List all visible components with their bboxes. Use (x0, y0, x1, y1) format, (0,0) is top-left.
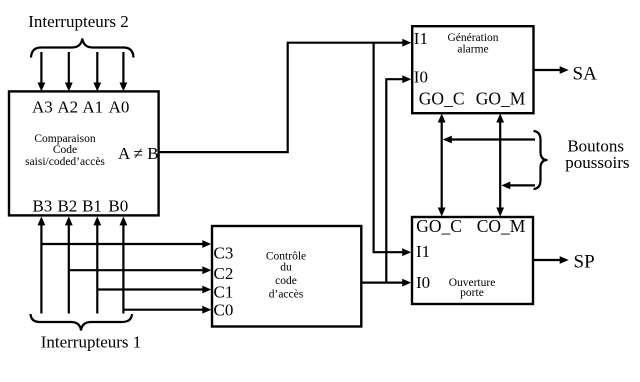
wire SP output (533, 259, 561, 261)
wire bouton to GO_M (510, 184, 536, 186)
svg-text:code: code (275, 275, 297, 287)
svg-text:A3: A3 (32, 98, 53, 117)
svg-text:B0: B0 (108, 197, 128, 216)
svg-text:saisi/coded’accès: saisi/coded’accès (25, 156, 105, 168)
svg-text:GO_C: GO_C (416, 216, 462, 236)
svg-text:GO_M: GO_M (476, 88, 526, 108)
svg-text:C2: C2 (214, 264, 234, 283)
block U2 Controle du code d'acces (212, 226, 361, 327)
svg-text:C1: C1 (214, 283, 234, 302)
block U1 Comparaison Code saisi/code d'acces (9, 91, 159, 215)
wire SA output (534, 69, 561, 71)
svg-text:Comparaison: Comparaison (34, 133, 96, 145)
wire C1 branch (97, 288, 203, 290)
svg-text:porte: porte (460, 287, 484, 299)
svg-text:Code: Code (53, 144, 77, 156)
svg-text:I0: I0 (416, 273, 430, 292)
block U3 Generation alarme (412, 26, 533, 113)
svg-text:Interrupteurs 2: Interrupteurs 2 (28, 12, 129, 31)
wire GO_M double arrow (499, 121, 501, 209)
brace over Interrupteurs 2 inputs (31, 39, 134, 58)
brace under Interrupteurs 1 inputs (31, 314, 133, 331)
wire bouton to GO_C (451, 138, 536, 140)
svg-text:SA: SA (573, 64, 598, 85)
svg-text:C0: C0 (214, 301, 234, 320)
wire input B0 (122, 225, 124, 314)
svg-text:poussoirs: poussoirs (565, 153, 629, 172)
svg-text:A1: A1 (82, 98, 103, 117)
svg-text:A0: A0 (109, 98, 130, 117)
svg-text:CO_M: CO_M (477, 216, 526, 236)
svg-text:A2: A2 (57, 98, 78, 117)
svg-text:I1: I1 (416, 242, 430, 261)
wire riser to I1 of Ouverture porte (374, 43, 403, 253)
brace Boutons poussoirs (534, 131, 548, 189)
wire C2 branch (69, 269, 204, 271)
wire input B1 (96, 225, 98, 314)
wire input A2 (68, 52, 70, 84)
wire C0 branch (123, 309, 203, 311)
wire input B2 (68, 225, 70, 314)
svg-text:Interrupteurs 1: Interrupteurs 1 (41, 333, 142, 352)
svg-text:d’accès: d’accès (269, 288, 304, 300)
wire input B3 (40, 225, 42, 314)
wire GO_C double arrow (441, 121, 443, 209)
svg-text:B1: B1 (82, 197, 102, 216)
wire riser to I0 of Generation alarme (386, 79, 403, 282)
block U4 Ouverture porte (412, 217, 533, 304)
svg-text:A ≠ B: A ≠ B (118, 144, 159, 163)
wire C3 branch (41, 243, 203, 245)
svg-text:GO_C: GO_C (419, 88, 465, 108)
svg-text:I0: I0 (414, 67, 428, 86)
svg-text:B2: B2 (57, 197, 77, 216)
svg-text:C3: C3 (214, 243, 234, 262)
svg-text:B3: B3 (32, 197, 52, 216)
wire input A3 (40, 52, 42, 84)
svg-text:Génération: Génération (447, 32, 498, 44)
svg-text:SP: SP (574, 252, 595, 273)
wire A!=B to I1 riser (159, 43, 403, 152)
wire input A0 (122, 52, 124, 84)
wire input A1 (96, 52, 98, 84)
wire Controle output to I0 of Ouverture porte (361, 282, 403, 284)
svg-text:I1: I1 (414, 29, 428, 48)
svg-text:du: du (280, 262, 292, 274)
svg-text:alarme: alarme (457, 44, 488, 56)
